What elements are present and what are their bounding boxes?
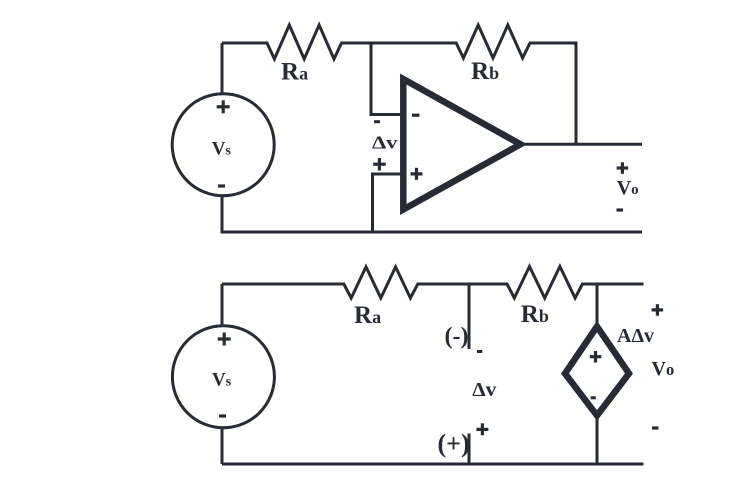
plus label inside vs (top circuit) [217,100,230,113]
svg-text:Δv: Δv [472,379,496,401]
plus label above (+) tick [476,423,488,435]
svg-text:(+): (+) [438,429,470,458]
svg-text:Ra: Ra [281,58,308,85]
voltage source vs (top circuit) [172,94,274,196]
plus label inside op-amp [411,168,423,180]
wire non-inverting input branch [373,174,402,232]
wire rail to dependent source top [596,284,599,327]
svg-text:Vo: Vo [617,177,639,199]
svg-text:Rb: Rb [471,58,499,85]
minus label inside op-amp [412,114,420,117]
wire op-amp output to right (top circuit) [520,143,642,146]
svg-text:Vo: Vo [652,358,675,380]
plus label at non-inverting node [373,158,386,171]
node tick plus terminal [468,434,471,465]
wire vs top to rail (bottom circuit) [221,284,224,325]
plus label inside vs (bottom circuit) [218,333,231,346]
svg-text:Δv: Δv [372,133,398,153]
wire vs bottom to rail (bottom circuit) [221,428,224,464]
minus label of output Vo (bottom circuit) [652,426,659,429]
minus label inside vs (top circuit) [218,184,225,187]
minus label at inverting node [374,120,380,123]
wire top rail with resistor Ra and resistor Rb (bottom circuit) [222,267,644,299]
plus label of output Vo (top circuit) [617,162,629,174]
svg-text:Ra: Ra [354,302,381,329]
plus label inside diamond [590,351,602,363]
svg-text:Rb: Rb [521,301,549,328]
minus label below (-) tick [477,350,482,353]
wire bottom rail (bottom circuit) [222,463,644,466]
wire dependent source bottom to rail [596,415,599,464]
minus label inside vs (bottom circuit) [219,414,226,417]
op-amp U1 [403,79,520,210]
svg-text:(-): (-) [445,324,469,350]
wire vs top to rail (top circuit) [221,43,224,94]
dependent source A delta-v (diamond) [565,327,629,416]
minus label inside diamond [591,396,596,399]
voltage source vs (bottom circuit) [172,326,274,428]
svg-text:Vs: Vs [212,138,232,159]
plus label of output Vo (bottom circuit) [652,304,664,316]
svg-text:AΔv: AΔv [617,325,654,347]
svg-text:Vs: Vs [212,370,232,391]
wire top rail with resistor Ra and resistor Rb (top circuit) [222,25,576,144]
wire inverting input branch [371,43,401,115]
minus label of output Vo (top circuit) [617,208,624,211]
node tick minus terminal [468,284,471,349]
wire vs bottom + bottom rail (top circuit) [222,195,642,232]
